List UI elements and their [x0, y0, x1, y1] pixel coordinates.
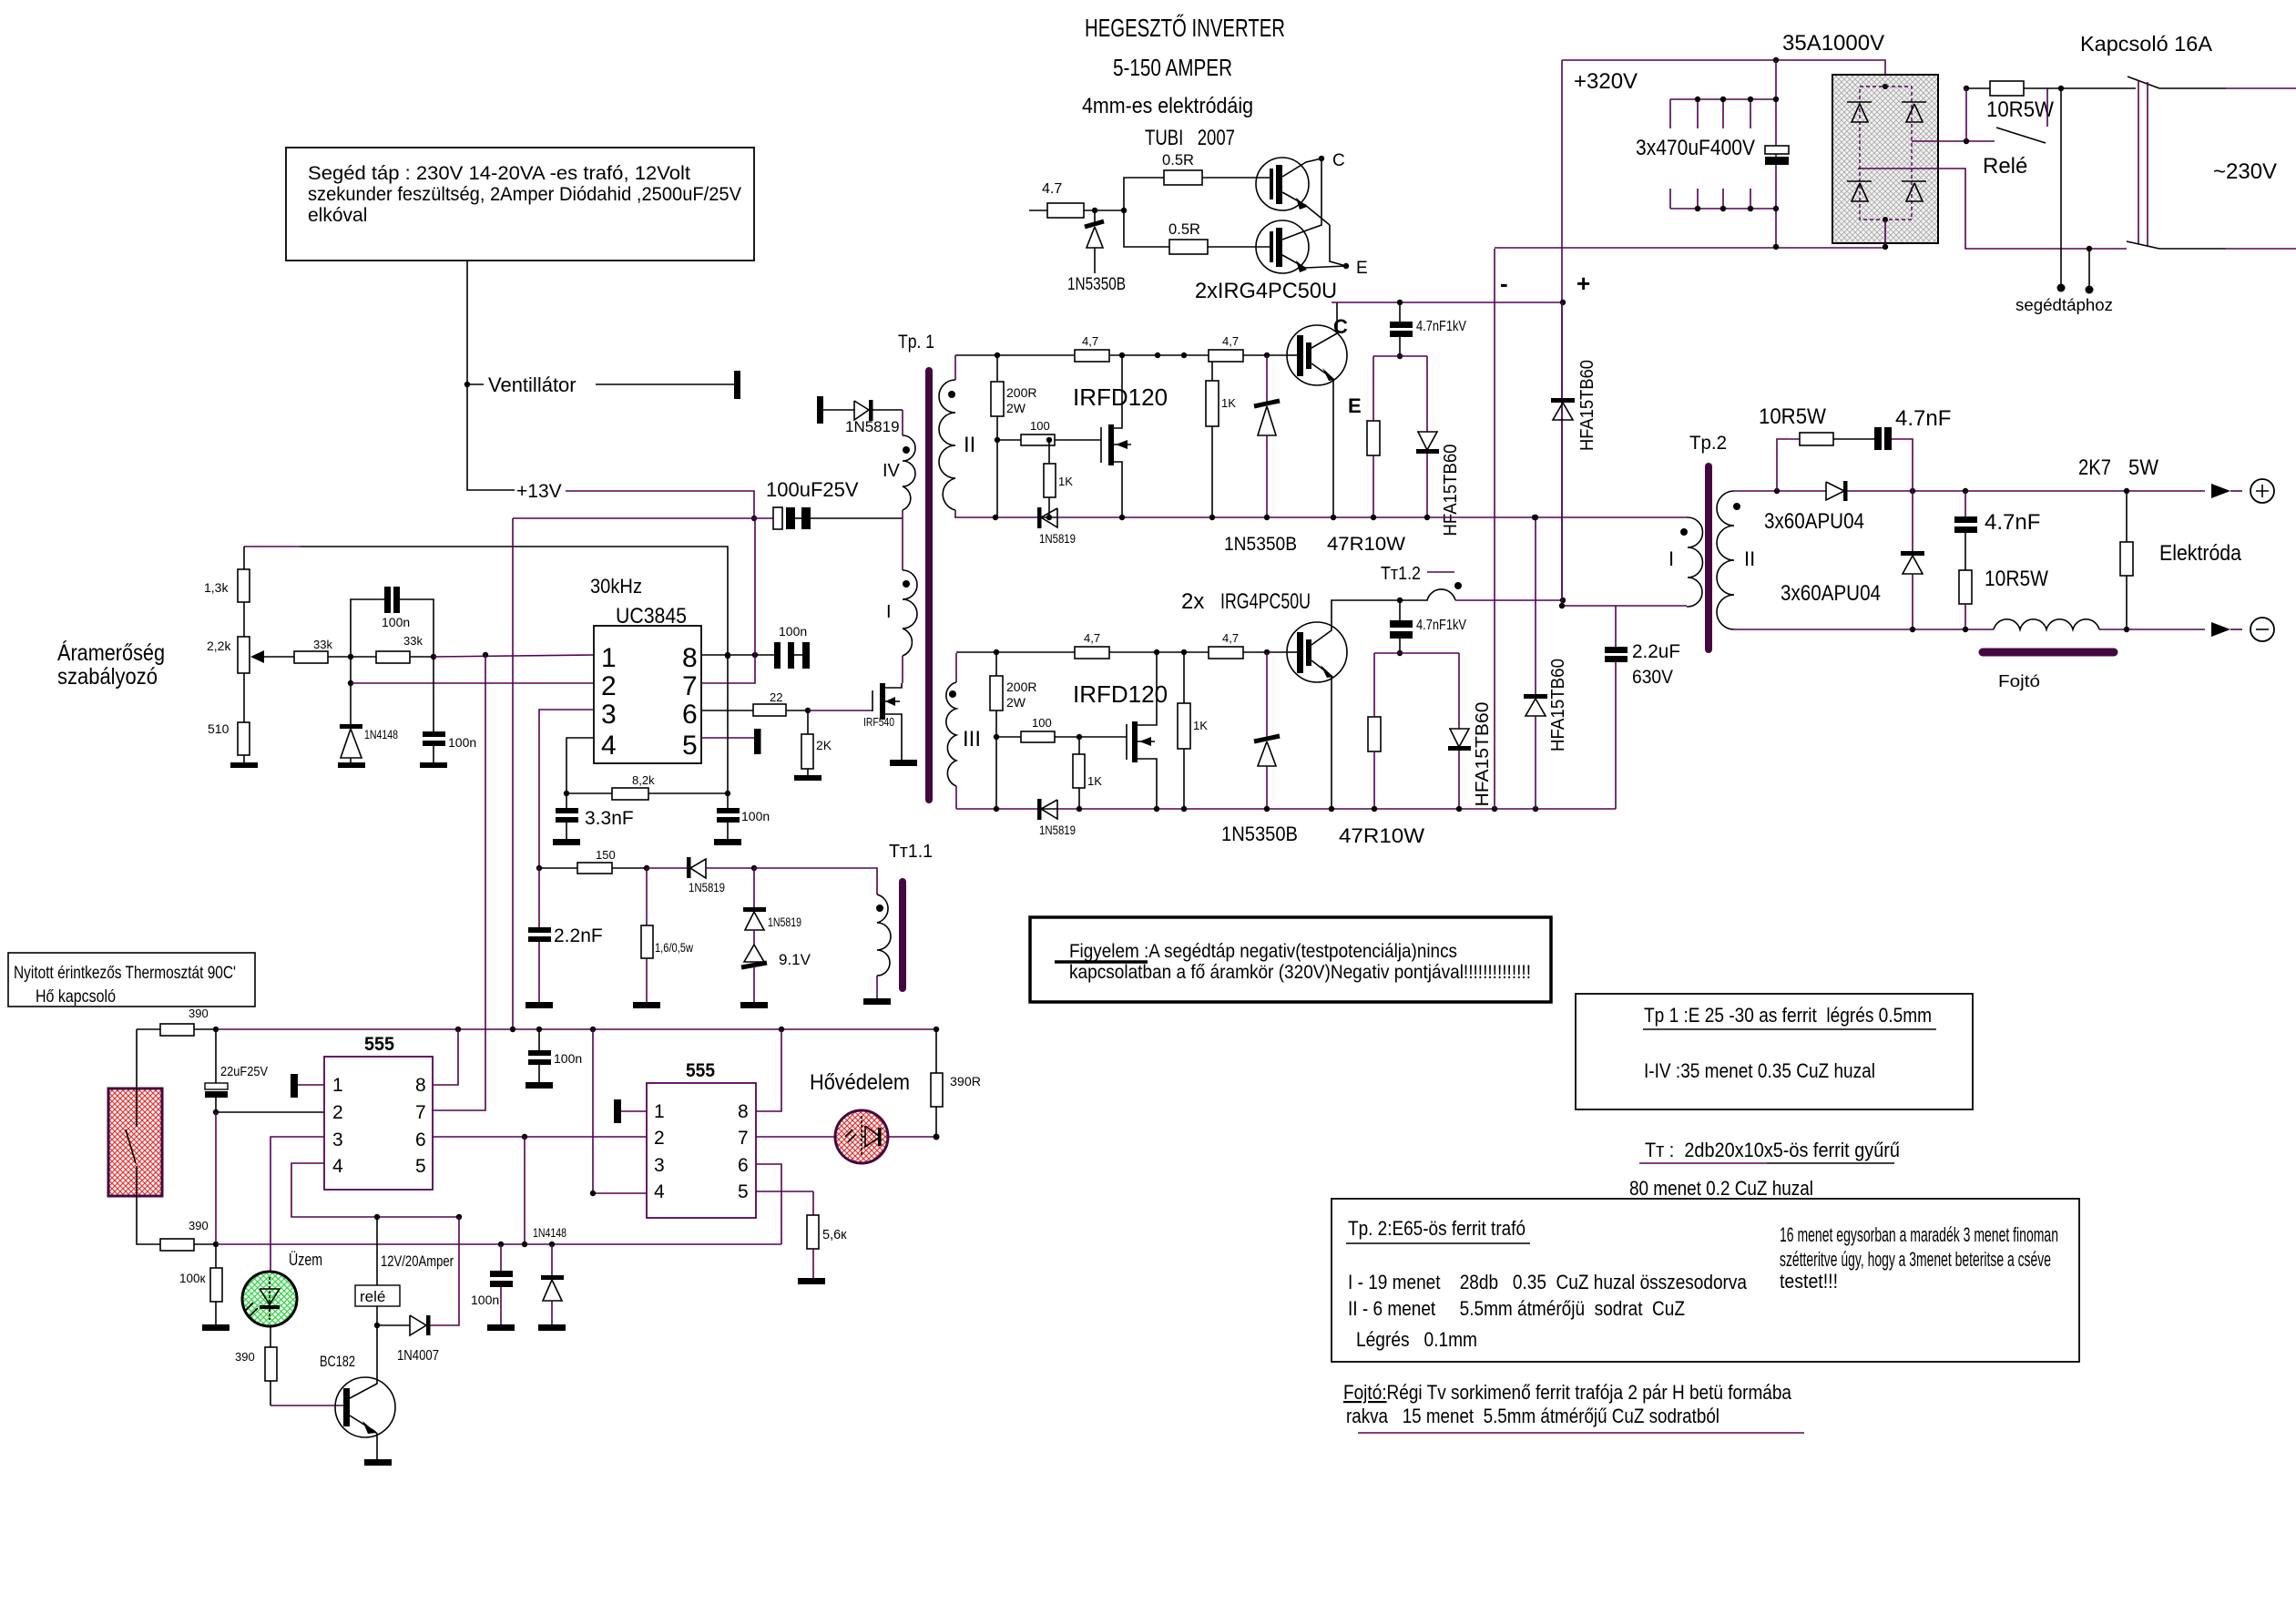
svg-text:1N5350B: 1N5350B	[1221, 823, 1298, 845]
title HEGESZTO INVERTER	[1082, 14, 1285, 150]
wire pin2 line	[351, 682, 594, 684]
wire pin7	[701, 518, 755, 683]
wire emitter to lower rail	[1332, 385, 1334, 517]
svg-text:3: 3	[601, 700, 617, 730]
diode top-left	[1847, 102, 1872, 122]
wire lower collector to Tt1.2 line	[1332, 600, 1400, 622]
svg-text:Tp. 2:E65-ös ferrit trafó: Tp. 2:E65-ös ferrit trafó	[1348, 1217, 1526, 1240]
wire cap bank column	[1775, 60, 1777, 247]
resistor 47R10W (lower)	[1339, 653, 1424, 847]
svg-text:100n: 100n	[448, 735, 476, 750]
wire collector to top rail	[1336, 302, 1338, 325]
supply rail 13V bottom	[216, 1028, 936, 1030]
lower emitter rail	[956, 808, 1616, 810]
svg-text:1N5819: 1N5819	[768, 915, 801, 929]
UC3845 pin numbers	[601, 643, 698, 761]
svg-text:3x60APU04: 3x60APU04	[1781, 581, 1881, 606]
svg-text:2,2k: 2,2k	[207, 639, 231, 653]
svg-text:100n: 100n	[741, 809, 770, 823]
svg-text:4mm-es elektródáig: 4mm-es elektródáig	[1082, 94, 1253, 118]
resistor 47R10W (upper)	[1327, 356, 1405, 555]
svg-text:III: III	[963, 727, 981, 751]
svg-text:I-IV :35 menet 0.35 CuZ huzal: I-IV :35 menet 0.35 CuZ huzal	[1644, 1059, 1875, 1082]
svg-text:100: 100	[1030, 419, 1050, 433]
wire ventillator stub	[467, 383, 484, 385]
svg-text:33k: 33k	[403, 634, 423, 648]
svg-text:kapcsolatban a fő áramkör (320: kapcsolatban a fő áramkör (320V)Negativ …	[1069, 962, 1531, 983]
svg-text:1: 1	[654, 1101, 665, 1122]
svg-text:22uF25V: 22uF25V	[220, 1064, 268, 1079]
wire ventillator to terminal	[596, 383, 734, 385]
switch vertical lines	[2138, 80, 2148, 246]
wire plus bus vertical	[1561, 60, 1563, 598]
svg-text:5-150 AMPER: 5-150 AMPER	[1113, 54, 1232, 81]
node ventillator junction	[464, 382, 470, 387]
wire top line section II	[955, 354, 1075, 356]
svg-text:2W: 2W	[1006, 695, 1026, 710]
note box Figyelem	[1030, 917, 1551, 1002]
output plus arrow and terminal	[2211, 479, 2274, 503]
wire bridge AC right terminal to relay row	[1912, 140, 1995, 142]
diode 3x60APU04 (top)	[1764, 481, 1864, 534]
svg-text:80 menet 0.2 CuZ huzal: 80 menet 0.2 CuZ huzal	[1629, 1177, 1813, 1200]
zener 1N5350B (driver)	[1067, 210, 1126, 294]
IC 555 second	[647, 1060, 756, 1218]
svg-text:Tт : 2db20x10x5-ös ferrit gyű: Tт : 2db20x10x5-ös ferrit gyűrű	[1645, 1139, 1900, 1161]
resistor 33k left	[294, 638, 376, 663]
svg-text:I - 19 menet 28db 0.35 C: I - 19 menet 28db 0.35 CuZ huzal összeso…	[1348, 1271, 1748, 1293]
capacitor 3.3nF	[553, 793, 634, 845]
capacitor 2.2uF 630V	[1605, 606, 1680, 809]
wire switch to right top	[2159, 87, 2226, 89]
svg-text:Nyitott érintkezős Thermosztát: Nyitott érintkezős Thermosztát 90C'	[14, 964, 236, 983]
svg-text:16 menet egysorban a maradék 3: 16 menet egysorban a maradék 3 menet fin…	[1780, 1223, 2058, 1246]
svg-text:12V/20Amper: 12V/20Amper	[381, 1252, 454, 1270]
resistor 1,6/0,5w	[633, 868, 693, 1008]
svg-text:Fojtó:Régi Tv sorkimenő ferrit: Fojtó:Régi Tv sorkimenő ferrit trafója 2…	[1343, 1381, 1792, 1404]
transformer Tp1 core bar	[925, 371, 933, 800]
output minus arrow and terminal	[2211, 618, 2274, 641]
wire bottom AC	[2159, 248, 2226, 250]
diode 3x60APU04 (bottom leg)	[1781, 491, 1924, 629]
diode HFA15TB60 (freewheel on plus bus)	[1551, 360, 1597, 451]
node C	[1319, 156, 1324, 161]
rail two (390 row)	[216, 1243, 781, 1245]
note Tt line	[1629, 1139, 1900, 1200]
svg-text:1: 1	[332, 1075, 343, 1096]
svg-text:8,2k: 8,2k	[632, 773, 655, 787]
node +13V cap junction	[751, 516, 757, 521]
wire pin5	[701, 737, 754, 739]
diode 1N5819 (vertical at Tt1.1)	[743, 868, 801, 945]
wire pin6 to 22	[701, 710, 753, 711]
resistor 100 (upper)	[995, 419, 1101, 445]
svg-text:100uF25V: 100uF25V	[766, 478, 859, 501]
svg-text:200R: 200R	[1006, 680, 1036, 694]
resistor 4,7 second (upper)	[1209, 334, 1288, 362]
svg-text:1N4148: 1N4148	[364, 728, 398, 741]
svg-text:Áramerőség: Áramerőség	[57, 639, 165, 666]
svg-text:2.2uF: 2.2uF	[1632, 641, 1680, 662]
capacitor 100n feedback loop	[351, 587, 434, 657]
svg-text:2K: 2K	[816, 738, 832, 752]
svg-text:5: 5	[682, 731, 698, 761]
Tt1.1 core bar	[899, 882, 906, 988]
svg-text:HFA15TB60: HFA15TB60	[1473, 702, 1493, 807]
resistor 5,6k	[756, 1191, 847, 1284]
svg-text:2K7: 2K7	[2078, 455, 2111, 480]
winding II of Tp1	[939, 355, 975, 517]
diode 1N4007	[377, 1217, 459, 1364]
IC 555 first	[324, 1034, 433, 1190]
vertical connection 200R bottom (upper)	[996, 440, 998, 517]
svg-text:Relé: Relé	[1983, 154, 2027, 179]
capacitor 4.7nF1kV (upper snubber)	[1390, 302, 1467, 356]
wire +13V feed down	[512, 518, 514, 1029]
Tt1.2 core line	[1427, 571, 1454, 573]
winding III of Tp1	[946, 653, 981, 809]
svg-text:HFA15TB60: HFA15TB60	[1577, 360, 1597, 451]
plus bus continuation	[1561, 302, 1563, 606]
svg-text:510: 510	[208, 721, 230, 736]
svg-text:555: 555	[364, 1034, 394, 1055]
svg-text:Kapcsoló 16A: Kapcsoló 16A	[2080, 32, 2213, 56]
resistor 100 (lower)	[994, 716, 1127, 742]
wire LED to 390	[270, 1326, 271, 1347]
note box Seged tap	[286, 148, 754, 261]
node E	[1343, 263, 1349, 269]
capacitor 100n (fb)	[423, 657, 476, 763]
wire fb node down	[350, 657, 352, 683]
terminal bar ventillator	[734, 371, 740, 399]
wire C to Q2 collector	[1309, 158, 1321, 230]
ground IRF540 source	[890, 760, 917, 766]
resistor 22	[753, 690, 808, 716]
wire to Tt1.1 winding	[754, 868, 877, 894]
svg-text:IRFD120: IRFD120	[1073, 383, 1168, 411]
svg-text:E: E	[1356, 259, 1368, 278]
wire 555#2 pin4 up to rail	[593, 1029, 647, 1193]
switch Kapcsolo top pole	[2128, 77, 2159, 88]
resistor 150	[536, 848, 649, 874]
svg-text:segédtáphoz: segédtáphoz	[2015, 296, 2113, 314]
svg-text:9.1V: 9.1V	[779, 951, 811, 968]
svg-text:5: 5	[738, 1181, 749, 1202]
svg-text:8: 8	[415, 1075, 426, 1096]
resistor 390 (lower left)	[160, 1219, 216, 1251]
svg-text:+: +	[1577, 270, 1590, 297]
svg-text:2.2nF: 2.2nF	[554, 925, 603, 946]
svg-text:5W: 5W	[2128, 455, 2158, 480]
diode HFA15TB60 (upper snubber)	[1416, 356, 1461, 537]
ground 1N4148	[338, 762, 365, 768]
svg-text:Tp. 1: Tp. 1	[898, 332, 934, 353]
terminal 555#2 pin1	[614, 1099, 621, 1123]
wire relay node vertical	[1965, 88, 1967, 141]
resistor 10R5W vertical (right)	[1959, 567, 2048, 629]
switch bottom pole	[2127, 241, 2159, 249]
snubber row (upper)	[1373, 355, 1427, 357]
svg-text:4.7nF1kV: 4.7nF1kV	[1416, 319, 1467, 334]
diode 1N5819 (upper rail)	[1037, 507, 1076, 546]
svg-text:elkóval: elkóval	[308, 205, 367, 226]
svg-text:4,7: 4,7	[1222, 334, 1239, 348]
svg-text:1N5819: 1N5819	[845, 418, 900, 435]
svg-text:+320V: +320V	[1574, 69, 1638, 94]
svg-text:HFA15TB60: HFA15TB60	[1548, 659, 1568, 751]
capacitor 100n (vcc decoupling)	[755, 624, 810, 669]
svg-text:2xIRG4PC50U: 2xIRG4PC50U	[1195, 279, 1337, 303]
segedtaphoz terminal left	[2060, 88, 2062, 288]
driver subcircuit: resistor 4.7	[1029, 181, 1124, 218]
wire pin8 column to 8,2k	[727, 656, 729, 793]
svg-text:II: II	[964, 433, 975, 457]
resistor 1K gate pulldown (lower)	[1073, 734, 1102, 809]
svg-text:5,6к: 5,6к	[822, 1228, 847, 1242]
svg-text:4: 4	[654, 1181, 665, 1202]
resistor 4,7 first (upper)	[1075, 334, 1109, 362]
svg-text:1N5819: 1N5819	[689, 881, 725, 894]
winding Tt1.1	[863, 894, 891, 1005]
resistor 8,2k	[564, 773, 730, 800]
svg-text:630V: 630V	[1632, 667, 1673, 688]
zener 1N5350B (upper)	[1224, 355, 1297, 555]
svg-text:10R5W: 10R5W	[1759, 404, 1826, 429]
note box Tp2	[1332, 1199, 2079, 1362]
svg-text:Elektróda: Elektróda	[2159, 541, 2242, 566]
LED Uzem green	[242, 1251, 322, 1326]
inductor Fojto	[1983, 619, 2114, 690]
svg-text:47R10W: 47R10W	[1339, 824, 1424, 847]
note box Tp1	[1576, 994, 1973, 1109]
wire from seged tap box down	[467, 261, 515, 490]
wire 555#2 pin8 up to rail	[756, 1029, 781, 1111]
resistor 1K gate pulldown (upper)	[1044, 437, 1073, 517]
svg-text:3x470uF400V: 3x470uF400V	[1636, 136, 1755, 160]
note box thermostat	[8, 953, 255, 1007]
diode 1N4148 (rail2)	[533, 1226, 566, 1331]
wire pin8	[701, 654, 755, 656]
svg-text:1K: 1K	[1087, 774, 1102, 788]
svg-text:4.7nF1kV: 4.7nF1kV	[1416, 618, 1467, 633]
svg-text:2: 2	[654, 1128, 665, 1149]
svg-text:33k: 33k	[313, 638, 332, 651]
wire winding IV top lead	[902, 410, 903, 435]
wire 22uF node down	[215, 1112, 217, 1244]
resistor 390R	[931, 1029, 981, 1137]
output plus line	[1734, 490, 2205, 492]
svg-text:Ventillátor: Ventillátor	[488, 373, 577, 396]
svg-text:Hővédelem: Hővédelem	[810, 1070, 910, 1095]
resistor 390 (top)	[137, 1007, 219, 1036]
resistor 2K7 5W	[2078, 455, 2158, 629]
svg-text:100n: 100n	[779, 624, 807, 639]
mosfet IRFD120 (upper)	[1101, 355, 1131, 517]
resistor 1K mid (lower)	[1178, 652, 1208, 809]
wire 555#2 pin6 down to rail2	[756, 1164, 781, 1244]
capacitor 100n (rail1 decoupling)	[526, 1029, 582, 1089]
wire to UC pin1	[434, 655, 594, 657]
svg-text:100n: 100n	[554, 1051, 582, 1066]
svg-text:+13V: +13V	[516, 481, 562, 502]
svg-text:3x60APU04: 3x60APU04	[1764, 509, 1864, 534]
svg-text:testet!!!: testet!!!	[1780, 1270, 1838, 1293]
diode HFA15TB60 (lower snubber)	[1448, 653, 1493, 809]
svg-text:1N4148: 1N4148	[533, 1226, 566, 1240]
svg-text:1K: 1K	[1221, 396, 1236, 410]
resistor 510	[208, 721, 250, 763]
wire winding I feed top	[1532, 515, 1537, 520]
svg-text:HEGESZTŐ INVERTER: HEGESZTŐ INVERTER	[1085, 14, 1285, 42]
diode bottom-right	[1902, 181, 1926, 201]
wire 555#1 pin3 to LED	[270, 1137, 324, 1272]
wire pin4	[566, 738, 594, 793]
svg-text:555: 555	[686, 1060, 715, 1081]
wire bridge bottom to minus rail	[1884, 220, 1886, 247]
svg-text:35A1000V: 35A1000V	[1782, 31, 1884, 56]
mosfet IRFD120 (lower)	[1127, 652, 1157, 809]
wire 22uF node to 555#1 pin2	[216, 1111, 324, 1113]
svg-text:Tp.2: Tp.2	[1689, 433, 1727, 454]
IC UC3845 box	[594, 626, 701, 763]
svg-text:200R: 200R	[1006, 385, 1036, 400]
terminal pin5 stub	[754, 729, 761, 754]
diode 1N4148 (fb clamp)	[340, 683, 398, 763]
filter 4.7nF vertical (right)	[1954, 491, 2040, 570]
zener 1N5350B (lower)	[1221, 652, 1298, 845]
wire 22 to gate IRF540	[808, 710, 872, 711]
resistor 390 (LED)	[235, 1347, 277, 1405]
svg-text:3: 3	[654, 1155, 665, 1176]
wire mid top line	[1075, 354, 1209, 356]
resistor 4,7 first (lower)	[1075, 631, 1109, 659]
wire plus bus to winding I bottom	[1562, 605, 1687, 607]
svg-text:IRF540: IRF540	[863, 715, 894, 729]
wire bridge AC left-mid to bottom AC line	[1858, 169, 2127, 249]
svg-text:1N5819: 1N5819	[1039, 532, 1076, 546]
svg-text:100: 100	[1032, 716, 1052, 730]
wire upper emitter to E	[1330, 225, 1346, 266]
resistor 4,7 second (lower)	[1209, 631, 1288, 659]
wire pot top feed	[244, 546, 301, 547]
svg-text:1N5819: 1N5819	[1039, 823, 1076, 837]
svg-text:HFA15TB60: HFA15TB60	[1441, 445, 1461, 537]
winding I of Tp2	[1668, 517, 1703, 607]
IGBT lower 2x IRG4PC50U	[1181, 589, 1347, 682]
svg-text:1K: 1K	[1193, 719, 1208, 732]
svg-text:BC182: BC182	[320, 1354, 355, 1370]
svg-text:150: 150	[596, 848, 616, 862]
svg-text:47R10W: 47R10W	[1327, 534, 1405, 555]
svg-text:4: 4	[332, 1156, 343, 1177]
wire thermostat left column	[136, 1029, 138, 1089]
node top rail to cap bank	[1773, 57, 1779, 63]
ground pot	[230, 762, 258, 768]
transistor Q2 driver bottom	[1256, 220, 1346, 273]
svg-text:4: 4	[601, 731, 617, 761]
svg-text:Fojtó: Fojtó	[1998, 672, 2040, 690]
svg-text:I: I	[886, 602, 892, 622]
wire top line section III	[956, 651, 1075, 653]
svg-text:0.5R: 0.5R	[1168, 220, 1200, 238]
svg-text:~230V: ~230V	[2213, 159, 2277, 184]
svg-text:6: 6	[738, 1155, 749, 1176]
svg-text:UC3845: UC3845	[616, 604, 687, 629]
svg-text:1,3k: 1,3k	[204, 580, 229, 595]
wire pin3	[539, 710, 594, 868]
svg-text:10R5W: 10R5W	[1985, 567, 2048, 591]
svg-text:1: 1	[601, 643, 617, 673]
node driver input	[1092, 208, 1097, 213]
wire driver split	[1124, 178, 1169, 247]
svg-text:100к: 100к	[179, 1272, 206, 1285]
svg-text:4.7: 4.7	[1042, 181, 1062, 197]
ground 100n fb	[420, 762, 447, 768]
svg-text:IV: IV	[883, 461, 901, 481]
capacitor bank 3x470uF400V top bus	[1636, 97, 1779, 160]
svg-text:6: 6	[682, 700, 698, 730]
snubber 10R5W + 4.7nF (top row)	[1759, 404, 1951, 491]
zener 9.1V	[740, 945, 811, 1008]
wire 555#2 pin7 to LED	[756, 1136, 835, 1138]
output minus line	[1734, 629, 2205, 630]
bridge rectifier 35A1000V hatched box	[1832, 75, 1938, 243]
resistor 0.5R top	[1162, 151, 1202, 185]
svg-text:Üzem: Üzem	[289, 1251, 322, 1269]
segedtaphoz terminal right	[2088, 249, 2090, 290]
svg-text:Hő kapcsoló: Hő kapcsoló	[36, 987, 116, 1007]
minus bus vertical	[1494, 249, 1495, 809]
svg-text:5: 5	[415, 1156, 426, 1177]
svg-text:C: C	[1333, 315, 1348, 338]
svg-text:4.7nF: 4.7nF	[1985, 510, 2040, 535]
diode 1N5819 (aux supply to winding IV)	[817, 396, 903, 435]
svg-text:TUBI 2007: TUBI 2007	[1145, 126, 1235, 150]
svg-text:relé: relé	[360, 1288, 385, 1305]
capacitor bank bottom bus	[1670, 189, 1779, 211]
svg-text:Tт1.1: Tт1.1	[889, 842, 933, 862]
diode HFA15TB60 (freewheel mid column)	[1524, 517, 1568, 809]
resistor 100k	[179, 1244, 230, 1331]
wire LED to 390R node	[888, 1136, 936, 1138]
svg-text:8: 8	[738, 1101, 749, 1122]
svg-text:7: 7	[738, 1128, 749, 1149]
emitter rail (upper)	[954, 516, 1687, 518]
capacitor 100n (rail2)	[471, 1244, 515, 1331]
wire 555#1 pin4	[291, 1163, 459, 1217]
LED Hovedelem red	[810, 1070, 910, 1163]
relay bypass resistor 10R5W	[1966, 81, 2054, 122]
wire base BC182	[270, 1405, 343, 1406]
terminal 555#1 pin1	[291, 1074, 298, 1098]
capacitor filter symbol	[1765, 146, 1789, 165]
capacitor 100uF25V	[513, 478, 903, 529]
svg-text:0.5R: 0.5R	[1162, 151, 1194, 169]
svg-text:2W: 2W	[1006, 401, 1026, 415]
svg-text:2x: 2x	[1181, 589, 1204, 614]
wire 555#1 pin6 to 555#2 pin2	[433, 1136, 647, 1138]
capacitor 2.2nF	[526, 868, 603, 1008]
resistor 1K mid (upper)	[1206, 355, 1236, 517]
Tt1.2 winding arc	[1400, 582, 1563, 600]
transistor BC182	[320, 1325, 395, 1460]
svg-text:100n: 100n	[382, 615, 410, 629]
wire thermostat to lower 390	[137, 1196, 160, 1244]
svg-text:I: I	[1668, 547, 1674, 570]
wire 555#1 pin8 to rail	[433, 1029, 458, 1085]
svg-text:szabályozó: szabályozó	[57, 664, 158, 690]
svg-text:Légrés 0.1mm: Légrés 0.1mm	[1356, 1328, 1477, 1351]
